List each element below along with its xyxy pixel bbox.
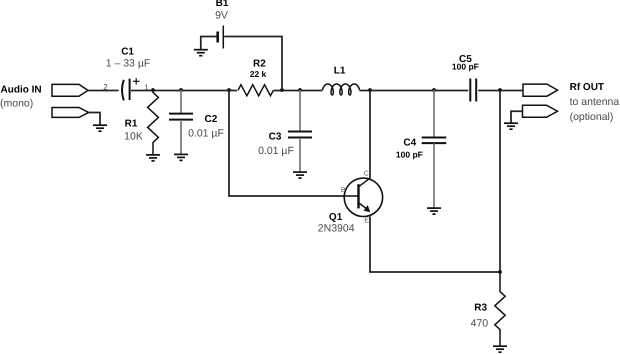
svg-text:R1: R1 — [125, 118, 138, 129]
svg-text:Q1: Q1 — [329, 212, 343, 223]
node: C1/R1 junction — [151, 88, 155, 92]
wire: C2 to ground — [180, 120, 182, 154]
svg-text:470: 470 — [471, 318, 489, 330]
inductor L1 — [323, 84, 360, 95]
node: collector junction — [368, 88, 372, 92]
wire: C1 to rail — [131, 90, 237, 92]
svg-text:1 – 33 µF: 1 – 33 µF — [106, 58, 151, 70]
node: R2 right / B1 junction — [280, 88, 284, 92]
connector J1 Audio IN ground pin — [52, 108, 89, 118]
svg-text:C2: C2 — [205, 114, 218, 125]
capacitor C2 — [169, 114, 193, 120]
svg-text:to antenna: to antenna — [570, 96, 620, 108]
capacitor C1 (polarized) — [122, 78, 139, 100]
node: C4 junction — [432, 88, 436, 92]
ground (C4) — [427, 208, 441, 214]
node: C2 junction — [179, 88, 183, 92]
resistor R1 — [148, 90, 159, 154]
node: C3 junction — [298, 88, 302, 92]
battery B1 — [218, 26, 224, 49]
wire: node to Q1 base — [229, 90, 345, 196]
wire: stem to C2 — [180, 90, 182, 113]
svg-text:B1: B1 — [216, 0, 229, 9]
transistor Q1 2N3904 — [344, 178, 382, 217]
wire: J1 tip to C1 — [88, 90, 119, 92]
svg-text:E: E — [364, 218, 369, 225]
connector J2 Rf OUT signal pin — [523, 84, 558, 96]
svg-text:0.01 µF: 0.01 µF — [188, 127, 224, 139]
capacitor C4 — [422, 138, 447, 144]
svg-text:B: B — [341, 187, 346, 194]
svg-text:R2: R2 — [253, 59, 266, 70]
resistor R3 — [495, 272, 505, 346]
svg-text:0.01 µF: 0.01 µF — [258, 145, 294, 157]
svg-text:(mono): (mono) — [0, 98, 33, 110]
svg-text:C3: C3 — [269, 131, 282, 142]
connector J1 Audio IN signal pin — [52, 84, 88, 96]
ground (output jack) — [504, 123, 518, 129]
svg-text:9V: 9V — [215, 10, 228, 22]
wire: stem to C4 — [433, 90, 435, 137]
wire: Q1 emitter down and right — [370, 216, 500, 272]
wire: C4 to ground — [433, 143, 435, 207]
svg-text:R3: R3 — [474, 303, 487, 314]
ground (B1) — [194, 50, 208, 56]
svg-text:(optional): (optional) — [570, 111, 614, 123]
wire: C5 to output node — [478, 90, 523, 92]
svg-text:L1: L1 — [334, 65, 346, 76]
svg-text:C: C — [364, 170, 369, 177]
svg-text:100 pF: 100 pF — [452, 62, 479, 72]
ground (C3) — [293, 172, 307, 178]
wire: J2 ground pin hook — [511, 111, 523, 123]
node: R2 left / base junction — [227, 88, 231, 92]
wire: stem to C3 — [299, 90, 301, 131]
wire: rail L1 to C5 — [360, 90, 469, 92]
svg-text:100 pF: 100 pF — [396, 149, 423, 159]
ground (C2) — [174, 154, 188, 160]
connector J2 Rf OUT ground pin — [523, 105, 558, 117]
svg-text:Audio IN: Audio IN — [1, 84, 42, 95]
node: output junction — [498, 88, 502, 92]
wire: C3 to ground — [299, 138, 301, 172]
ground (input jack) — [93, 125, 107, 131]
svg-text:C1: C1 — [121, 47, 134, 58]
svg-text:2N3904: 2N3904 — [318, 222, 355, 234]
wire: B1 positive to rail — [224, 37, 282, 91]
svg-text:Rf OUT: Rf OUT — [570, 82, 604, 93]
svg-text:C4: C4 — [403, 137, 416, 148]
resistor R2 — [238, 85, 273, 96]
capacitor C3 — [288, 132, 312, 138]
ground (R3) — [493, 346, 507, 352]
wire: B1 negative to ground — [201, 37, 217, 50]
node: emitter/R3 junction — [498, 270, 502, 274]
wire: J1 ground pin to ground — [89, 112, 100, 125]
ground (R1) — [146, 155, 160, 161]
svg-text:10K: 10K — [124, 131, 143, 143]
wire: rail R2 right to L1 — [274, 90, 323, 92]
wire: output node down to emitter line — [499, 90, 501, 272]
capacitor C5 — [470, 79, 476, 102]
svg-text:22 k: 22 k — [250, 69, 267, 79]
wire: rail to Q1 collector — [369, 90, 371, 178]
